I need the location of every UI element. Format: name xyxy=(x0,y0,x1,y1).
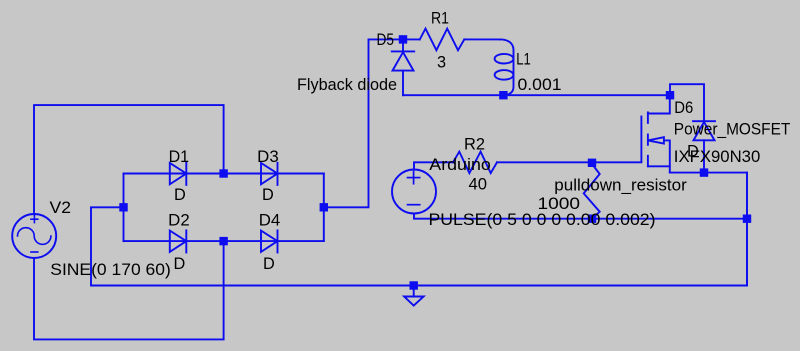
svg-text:Flyback diode: Flyback diode xyxy=(297,76,397,94)
svg-text:D3: D3 xyxy=(257,148,279,166)
node bridge right xyxy=(320,203,328,211)
resistor pulldown xyxy=(584,164,600,219)
inductor L1 xyxy=(500,39,514,95)
transistor M1 power MOSFET xyxy=(641,95,669,172)
svg-text:Arduino: Arduino xyxy=(429,156,491,174)
svg-text:IXFX90N30: IXFX90N30 xyxy=(674,148,761,166)
resistor R1 xyxy=(420,29,465,51)
wire bridge rectangle xyxy=(124,173,324,175)
svg-text:PULSE(0 5 0 0 0 0.00 0.002): PULSE(0 5 0 0 0 0.00 0.002) xyxy=(429,211,656,229)
node right rail pulse xyxy=(743,215,751,223)
svg-text:D1: D1 xyxy=(169,148,190,166)
wire R1 to L1 xyxy=(464,38,500,40)
voltage source Arduino xyxy=(392,170,436,214)
wire Arduino source to gate xyxy=(414,162,453,169)
svg-text:D4: D4 xyxy=(259,212,281,230)
wire bridge left node to ground rail xyxy=(91,207,747,285)
resistor R2 xyxy=(453,152,497,174)
svg-text:3: 3 xyxy=(437,53,446,71)
svg-text:D: D xyxy=(174,186,186,204)
node bridge top xyxy=(219,169,227,177)
diode D4 xyxy=(261,230,278,252)
diode D6 xyxy=(693,121,715,172)
node D5 top xyxy=(399,35,407,43)
svg-text:D6: D6 xyxy=(674,99,693,117)
diode D1 xyxy=(170,163,187,185)
node bridge bottom xyxy=(219,237,227,245)
svg-text:V2: V2 xyxy=(50,199,72,217)
wire right rail junction xyxy=(746,173,748,286)
svg-text:D: D xyxy=(174,255,186,273)
node L1 bottom xyxy=(499,91,507,99)
svg-text:pulldown_resistor: pulldown_resistor xyxy=(554,176,687,194)
voltage source V2 xyxy=(12,214,56,258)
svg-text:40: 40 xyxy=(469,175,488,193)
wire V2 minus to bottom rail up to bridge bottom node xyxy=(34,241,224,339)
svg-text:R1: R1 xyxy=(431,10,449,28)
wire bridge right node up to D5 node xyxy=(324,39,420,207)
svg-text:Power_MOSFET: Power_MOSFET xyxy=(674,120,791,138)
svg-text:D2: D2 xyxy=(168,212,190,230)
svg-text:L1: L1 xyxy=(516,51,531,69)
node pulldown bottom xyxy=(588,215,596,223)
node ground xyxy=(410,281,418,289)
svg-text:D: D xyxy=(262,186,274,204)
svg-text:D5: D5 xyxy=(377,31,395,49)
diode D3 xyxy=(261,163,278,185)
node source D6 xyxy=(700,168,708,176)
svg-text:0.001: 0.001 xyxy=(518,76,562,94)
node bridge left xyxy=(119,203,127,211)
node drain xyxy=(666,91,674,99)
wire D5 bottom / L1 bottom to MOSFET drain node xyxy=(403,94,670,96)
wire source node to right rail down xyxy=(670,173,747,286)
wire drain node up over to D6 cathode xyxy=(670,84,704,121)
diode D2 xyxy=(170,230,187,252)
node gate pulldown top xyxy=(588,159,596,167)
wire top-left loop from V2 plus to bridge top node xyxy=(34,105,224,214)
svg-text:D: D xyxy=(263,255,275,273)
wire R2 to gate xyxy=(497,161,641,163)
diode D5 flyback xyxy=(392,39,414,95)
wire Arduino minus to bottom pulse rail xyxy=(414,214,747,219)
svg-text:R2: R2 xyxy=(464,135,485,153)
ground xyxy=(404,290,424,306)
svg-text:SINE(0 170 60): SINE(0 170 60) xyxy=(50,261,170,279)
